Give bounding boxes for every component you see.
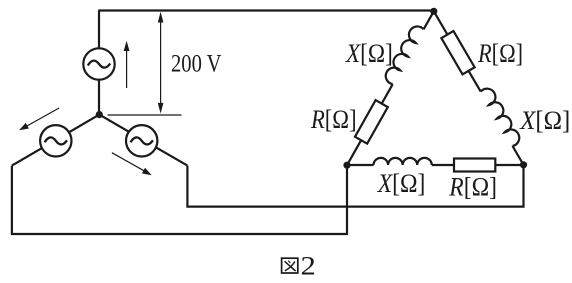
svg-text:X[Ω]: X[Ω] [519, 106, 570, 135]
inductor X bottom side [374, 158, 432, 165]
wire top bus [98, 9, 434, 11]
svg-text:R[Ω]: R[Ω] [477, 39, 523, 68]
tick reference line at node level [108, 114, 182, 116]
wire delta right side middle stub [469, 71, 481, 92]
source U1 (top phase) [83, 48, 114, 79]
wire delta left side middle stub [382, 84, 393, 103]
wire right branch node to corner [99, 115, 187, 166]
source U2 (left phase) [40, 125, 71, 156]
resistor R bottom side [454, 159, 495, 172]
wire delta left side lower stub [347, 140, 361, 165]
source U3 (right phase) [126, 125, 157, 156]
node delta bottom-left vertex [343, 162, 350, 169]
wire top source stem lower [98, 80, 100, 115]
sine symbol of U3 [131, 137, 153, 144]
svg-text:R[Ω]: R[Ω] [310, 105, 356, 134]
resistor R right side [441, 31, 474, 74]
wire delta right side lower stub [513, 146, 524, 165]
arrow phase direction right source [112, 153, 152, 176]
caption glyph ZU (figure) drawn manually [282, 258, 298, 273]
sine symbol of U1 [88, 61, 110, 68]
wire delta bottom right stub [495, 164, 523, 166]
wire left branch node to corner [12, 115, 99, 166]
node apex of delta [430, 8, 437, 15]
svg-text:200 V: 200 V [171, 50, 222, 77]
wire left corner down, bottom run, up to delta left vertex [12, 165, 347, 234]
wire delta bottom middle stub [432, 164, 454, 166]
node N (neutral star point) [96, 111, 103, 118]
svg-text:X[Ω]: X[Ω] [377, 169, 426, 198]
caption numeral 2 [301, 252, 316, 280]
wire top source stem upper [98, 11, 100, 49]
wire delta left side upper stub [424, 11, 434, 29]
arrow phase direction up (top source) [124, 41, 130, 88]
arrow phase direction left source [19, 108, 59, 130]
measurement arrow 200V (double headed) [158, 12, 164, 114]
wire delta right side upper stub [434, 11, 448, 34]
inductor X left side [383, 23, 424, 84]
svg-text:2: 2 [301, 252, 316, 280]
wire right corner down, middle run, up to delta right vertex [187, 165, 523, 207]
node delta bottom-right vertex [520, 161, 527, 168]
sine symbol of U2 [45, 137, 67, 144]
inductor X right side [480, 86, 522, 147]
svg-text:R[Ω]: R[Ω] [448, 173, 497, 202]
svg-text:X[Ω]: X[Ω] [345, 39, 393, 68]
wire delta bottom left stub [347, 164, 374, 166]
resistor R left side [355, 100, 388, 143]
